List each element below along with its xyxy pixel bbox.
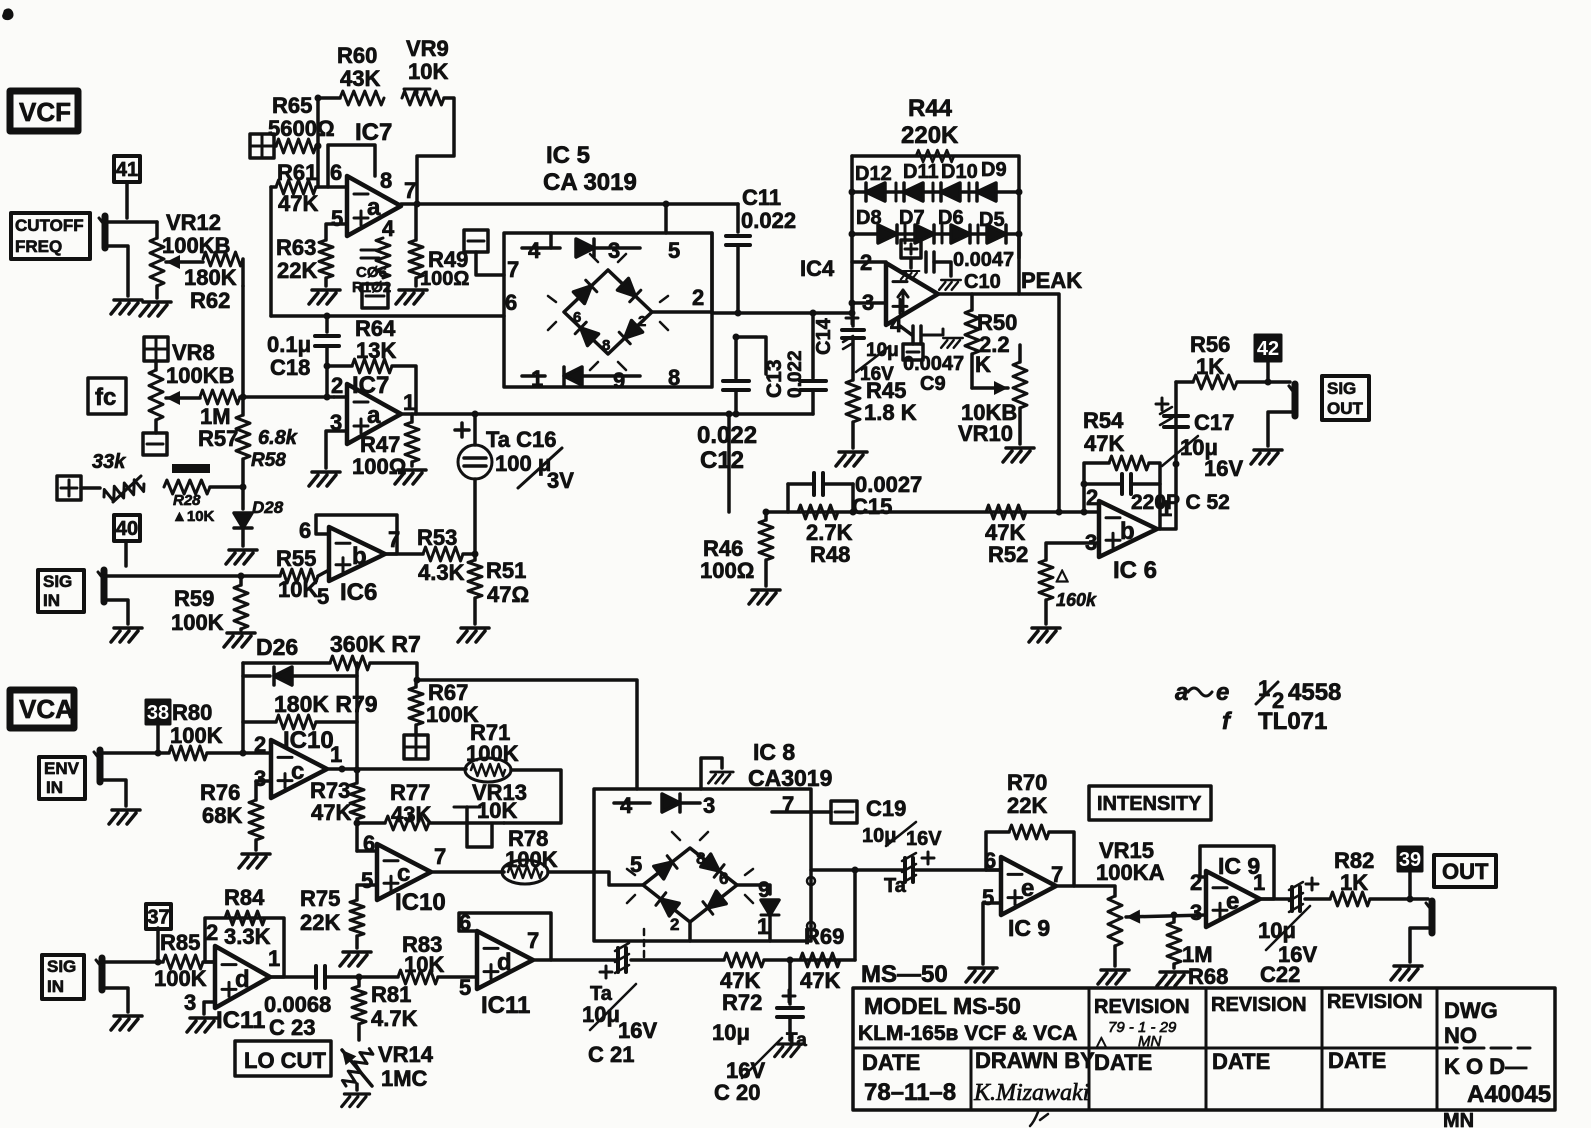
- label IC10 c2 pins: [361, 831, 446, 893]
- svg-text:R44: R44: [908, 95, 953, 122]
- resistor R7 360K: [243, 656, 417, 680]
- svg-text:VR14: VR14: [378, 1042, 434, 1067]
- label R82: [1334, 848, 1374, 895]
- potentiometer VR8: [149, 370, 163, 433]
- wire IC5 right edge: [710, 233, 714, 313]
- label IC5 pin2: [692, 285, 704, 310]
- label INTENSITY box: [1089, 786, 1211, 820]
- resistor R82 1K: [1305, 892, 1428, 906]
- op-amp IC6 b1: [299, 518, 400, 581]
- svg-text:3: 3: [703, 793, 715, 818]
- wire d1 output: [270, 975, 314, 979]
- ground under jack J41: [111, 300, 142, 314]
- resistor R69 47K: [800, 953, 840, 967]
- wire IC6b1 output: [385, 552, 423, 556]
- svg-text:C10: C10: [964, 271, 1001, 293]
- svg-text:6.8k: 6.8k: [258, 427, 298, 449]
- op-amp IC11 d2: [477, 931, 533, 989]
- IC8 outer box: [594, 789, 811, 941]
- IC5 diamond bridge: [548, 254, 668, 370]
- label SIG OUT box: [1322, 376, 1369, 420]
- title block frame: [853, 988, 1555, 1110]
- capacitor/resistor smudge under a1: [352, 238, 391, 296]
- svg-text:C11: C11: [742, 185, 781, 210]
- svg-text:D28: D28: [252, 498, 284, 517]
- capacitor C20 10u 16V: [742, 960, 803, 1078]
- svg-text:CA 3019: CA 3019: [543, 169, 637, 196]
- svg-text:2: 2: [254, 732, 266, 757]
- wire a2 pin3 to ground: [326, 431, 347, 468]
- svg-text:e: e: [1216, 679, 1229, 706]
- resistor R63 22K: [319, 224, 347, 286]
- svg-text:3: 3: [184, 990, 196, 1015]
- svg-text:A40045: A40045: [1467, 1081, 1551, 1108]
- label DATE1: [862, 1050, 920, 1075]
- label REVISION1: [1094, 996, 1190, 1018]
- svg-text:R28: R28: [173, 492, 201, 509]
- label LO CUT box: [235, 1041, 331, 1076]
- potentiometer VR10 10KB: [972, 345, 1027, 444]
- label R80: [170, 700, 223, 748]
- svg-text:VCF: VCF: [19, 97, 71, 127]
- svg-text:100K: 100K: [154, 966, 207, 991]
- svg-text:R59: R59: [174, 586, 214, 611]
- wire R61 left leg: [269, 187, 273, 316]
- ground under d1 pin3: [187, 1018, 218, 1032]
- svg-text:IC10: IC10: [283, 727, 334, 754]
- label R58: [251, 427, 298, 471]
- svg-text:16V: 16V: [618, 1018, 657, 1043]
- label MS-50 above table: [861, 961, 948, 988]
- capacitor C9 0.0047: [900, 326, 963, 360]
- capacitor C19 Ta 10u: [886, 822, 934, 883]
- label IC7 a1 pins: [330, 160, 416, 241]
- svg-text:FREQ: FREQ: [15, 237, 62, 256]
- svg-text:9: 9: [613, 368, 625, 393]
- IC5 pin1-9 diode: [522, 367, 640, 385]
- svg-text:13K: 13K: [356, 338, 396, 363]
- resistor R61 47K: [271, 180, 328, 194]
- svg-text:68K: 68K: [202, 803, 242, 828]
- svg-text:39: 39: [1399, 849, 1421, 871]
- label R53: [417, 525, 465, 585]
- label C10: [953, 249, 1014, 293]
- svg-text:R63: R63: [276, 235, 316, 260]
- svg-text:MN: MN: [1443, 1110, 1474, 1128]
- wire IC6b2 output to C17: [1157, 382, 1180, 529]
- label IC11 d2: [481, 992, 530, 1019]
- svg-text:0.022: 0.022: [697, 422, 757, 449]
- svg-text:C19: C19: [866, 796, 906, 821]
- svg-text:MN: MN: [1138, 1033, 1161, 1050]
- connector window under R67: [404, 735, 428, 759]
- ground under R75: [340, 952, 371, 966]
- label IC9 e1: [1008, 915, 1050, 941]
- label C9 pin4: [890, 312, 964, 395]
- svg-text:2: 2: [638, 313, 646, 330]
- svg-text:C17: C17: [1194, 410, 1234, 435]
- wire R7 to IC8: [414, 677, 638, 790]
- resistor R59 100K: [234, 573, 248, 631]
- svg-text:b: b: [1120, 518, 1135, 545]
- wire IC4 output PEAK: [938, 294, 1059, 512]
- potentiometer VR13 100K: [465, 758, 561, 823]
- svg-text:5600Ω: 5600Ω: [268, 116, 335, 141]
- IC8 bottom vertex stub: [688, 922, 692, 941]
- IC8 top ground stub: [701, 758, 733, 789]
- legend op-amp types: [1175, 676, 1341, 735]
- svg-text:R61: R61: [277, 160, 317, 185]
- resistor R58 6.8k: [236, 397, 250, 491]
- label IC8: [748, 739, 832, 791]
- svg-text:220P C 52: 220P C 52: [1131, 491, 1230, 514]
- wire bus y512: [726, 411, 1100, 516]
- svg-text:K: K: [975, 352, 991, 377]
- op-amp IC10 c2: [377, 844, 431, 900]
- wire d1 pin3: [204, 1002, 215, 1014]
- wire IC5 pin2 row: [652, 310, 712, 314]
- svg-text:IC7: IC7: [352, 372, 389, 399]
- op-amp IC9 e2: [1206, 871, 1260, 927]
- resistor R83 10K: [359, 970, 477, 984]
- svg-text:C 21: C 21: [588, 1042, 634, 1067]
- resistor R77 43K: [357, 816, 504, 830]
- svg-text:47Ω: 47Ω: [487, 582, 529, 607]
- capacitor C17 10u: [1156, 398, 1198, 466]
- label R81: [371, 982, 418, 1031]
- op-amp IC7 a2: [347, 384, 401, 444]
- svg-text:Ta: Ta: [884, 875, 907, 897]
- wire IC9e1 pin5: [983, 903, 1001, 964]
- svg-text:47K: 47K: [800, 968, 840, 993]
- svg-text:0.0068: 0.0068: [264, 992, 331, 1017]
- svg-text:10K: 10K: [404, 952, 444, 977]
- label R85: [154, 930, 207, 991]
- svg-text:fc: fc: [95, 384, 116, 411]
- wire bus y313: [712, 310, 856, 317]
- svg-text:100K: 100K: [505, 847, 558, 872]
- label R83: [402, 932, 444, 977]
- svg-text:100KB: 100KB: [162, 233, 230, 258]
- label C18: [267, 332, 311, 380]
- svg-text:IC6: IC6: [340, 579, 377, 606]
- label C15: [852, 472, 922, 519]
- label R68: [1182, 942, 1228, 989]
- wire C21 to R72: [631, 958, 724, 962]
- potentiometer VR9: [402, 89, 444, 105]
- resistor R68 1M: [1167, 915, 1181, 968]
- svg-text:INTENSITY: INTENSITY: [1097, 793, 1202, 815]
- svg-text:VR10: VR10: [958, 421, 1013, 446]
- svg-text:R75: R75: [300, 886, 340, 911]
- svg-text:R1Ø2: R1Ø2: [352, 279, 391, 296]
- svg-text:NO: NO: [1444, 1023, 1477, 1048]
- svg-text:42: 42: [1257, 338, 1279, 360]
- svg-text:10μ: 10μ: [582, 1002, 620, 1027]
- svg-text:100 μ: 100 μ: [495, 451, 551, 476]
- svg-text:CA3019: CA3019: [748, 765, 832, 791]
- wire CV rail: [241, 286, 245, 397]
- svg-text:2: 2: [206, 920, 218, 945]
- svg-text:2: 2: [670, 915, 679, 934]
- svg-text:a: a: [367, 194, 381, 221]
- label R56: [1190, 332, 1230, 379]
- wire R65 node: [315, 95, 322, 188]
- svg-text:IC11: IC11: [481, 992, 530, 1019]
- svg-text:IC 8: IC 8: [753, 739, 795, 765]
- diode row D8-D5: [849, 225, 1023, 243]
- ground under jack J40: [111, 628, 142, 642]
- svg-text:KLM-165ʙ VCF & VCA: KLM-165ʙ VCF & VCA: [858, 1022, 1077, 1045]
- svg-text:5: 5: [630, 852, 642, 877]
- ground under R63: [309, 290, 340, 304]
- label R51: [486, 558, 529, 607]
- wire R72 to R69: [790, 870, 855, 960]
- svg-text:VR9: VR9: [406, 36, 449, 61]
- resistor R76 68K: [249, 800, 263, 850]
- svg-text:D11: D11: [903, 161, 939, 183]
- svg-text:100Ω: 100Ω: [700, 558, 754, 583]
- svg-text:40: 40: [116, 518, 138, 540]
- label IC6 b2 pins: [1085, 485, 1172, 555]
- ground under VR10: [1003, 448, 1034, 462]
- resistor R57 1M: [166, 390, 334, 405]
- svg-text:D7: D7: [899, 207, 925, 229]
- svg-text:47K: 47K: [278, 191, 318, 216]
- svg-text:OUT: OUT: [1442, 859, 1489, 884]
- svg-text:33k: 33k: [92, 451, 126, 473]
- label OUT box: [1434, 855, 1496, 887]
- svg-text:IC11: IC11: [216, 1007, 265, 1034]
- label R76: [200, 780, 242, 828]
- label IC4: [800, 256, 835, 281]
- IC8 edge pin circles: [807, 877, 815, 930]
- svg-text:C13: C13: [763, 359, 786, 398]
- label R59: [171, 586, 224, 635]
- label DATE4: [1328, 1048, 1386, 1073]
- label IC10 c1 pins: [254, 732, 342, 791]
- connector 42: [1255, 335, 1281, 382]
- label R46: [700, 536, 754, 583]
- trimmer 33k: [92, 451, 146, 504]
- ground under VR12: [140, 302, 171, 316]
- wire IC9e2 output: [1260, 897, 1290, 901]
- svg-text:220K: 220K: [901, 122, 959, 149]
- svg-text:R65: R65: [272, 93, 312, 118]
- svg-text:D26: D26: [256, 634, 298, 660]
- label IC7 a2 pins: [330, 373, 415, 435]
- svg-text:K O D—: K O D—: [1444, 1054, 1527, 1079]
- svg-text:d: d: [235, 966, 250, 993]
- feedback R70 22K: [986, 832, 1074, 886]
- svg-text:0.022: 0.022: [741, 208, 796, 233]
- wire VR15 wiper: [1126, 910, 1206, 924]
- jack SIG IN VCA: [96, 958, 163, 1012]
- label R55: [276, 546, 329, 609]
- resistor R46 100: [759, 512, 773, 586]
- svg-text:41: 41: [116, 159, 138, 181]
- label IC7 a1: [355, 119, 392, 146]
- label DATE2: [1094, 1050, 1152, 1075]
- svg-text:1.8 K: 1.8 K: [864, 400, 917, 425]
- capacitor C11 0.022: [726, 204, 750, 313]
- capacitor C16 100u 3V: [455, 414, 562, 554]
- svg-text:100Ω: 100Ω: [420, 268, 469, 290]
- svg-text:REVISION: REVISION: [1094, 996, 1190, 1018]
- capacitor C10 0.0047: [926, 252, 961, 290]
- connector minus to IC5 pin7: [464, 230, 504, 275]
- label ENV IN box: [39, 757, 85, 799]
- svg-text:1K: 1K: [1196, 354, 1224, 379]
- svg-text:IC 6: IC 6: [1113, 557, 1157, 584]
- op-amp IC11 d1: [215, 946, 270, 1008]
- svg-text:LO CUT: LO CUT: [244, 1048, 326, 1073]
- resistor R70 22K: [1009, 825, 1049, 839]
- svg-text:IN: IN: [43, 591, 60, 610]
- title block verticals: [971, 988, 1437, 1110]
- label VR12: [162, 210, 230, 258]
- svg-text:REVISION: REVISION: [1327, 991, 1423, 1013]
- dashed wire bridge to output: [643, 929, 646, 958]
- trimmer VR14 1MC: [337, 1046, 375, 1107]
- ground under IC9e1 pin5: [966, 968, 997, 982]
- resistor R56 1K: [1176, 375, 1290, 389]
- label KOD: [1444, 1054, 1527, 1079]
- svg-text:TL071: TL071: [1258, 708, 1327, 735]
- svg-text:MS—50: MS—50: [861, 961, 948, 988]
- svg-text:R52: R52: [988, 542, 1028, 567]
- svg-text:100Ω: 100Ω: [352, 454, 406, 479]
- label C14 rotated: [813, 317, 899, 385]
- ground under J42: [1251, 450, 1282, 464]
- svg-text:1: 1: [403, 390, 415, 415]
- svg-text:100K: 100K: [170, 723, 223, 748]
- ground under R47: [395, 470, 426, 484]
- label C13 rotated: [763, 350, 806, 398]
- svg-text:IC10: IC10: [395, 889, 446, 916]
- label IC11 d1: [216, 1007, 265, 1034]
- svg-text:R62: R62: [190, 288, 230, 313]
- feedback wire IC6b1: [316, 515, 397, 554]
- label C19: [862, 796, 942, 897]
- label fc box: [88, 378, 126, 414]
- svg-text:IN: IN: [46, 778, 63, 797]
- label VR15: [1096, 838, 1165, 885]
- ground under R46: [749, 590, 780, 604]
- connector 40: [114, 515, 140, 566]
- connector 39: [1398, 847, 1422, 899]
- op-amp IC4 f: [886, 263, 938, 325]
- svg-text:10K: 10K: [477, 798, 517, 823]
- label R75: [300, 886, 340, 935]
- IC5 pin4-3 diode: [522, 233, 640, 257]
- ground under J39: [1391, 966, 1422, 980]
- label IC9 e2: [1218, 853, 1260, 879]
- svg-text:8: 8: [602, 337, 610, 354]
- svg-text:R54: R54: [1083, 408, 1124, 433]
- svg-text:R80: R80: [172, 700, 212, 725]
- svg-text:360K R7: 360K R7: [330, 631, 421, 657]
- wire VR13 wiper: [454, 807, 492, 847]
- svg-text:VR12: VR12: [166, 210, 221, 235]
- label R48: [806, 520, 853, 567]
- label C21: [582, 983, 657, 1067]
- svg-text:47K: 47K: [1084, 431, 1124, 456]
- label R47: [352, 432, 406, 479]
- svg-text:c: c: [397, 860, 410, 887]
- feedback wire IC11d2: [459, 913, 551, 960]
- svg-text:8: 8: [380, 168, 392, 193]
- label MN bottom: [1443, 1110, 1474, 1128]
- wire a2 pin2: [334, 395, 347, 399]
- label R54: [1083, 408, 1124, 456]
- connector window R65: [250, 134, 276, 158]
- svg-text:C9: C9: [920, 373, 946, 395]
- svg-text:D10: D10: [941, 161, 978, 183]
- svg-text:R84: R84: [224, 885, 265, 910]
- IC8 pin4-3 diode: [614, 794, 700, 812]
- svg-text:2: 2: [331, 373, 343, 398]
- label IC7 a2: [352, 372, 389, 399]
- wire c2 pin5: [357, 885, 377, 900]
- capacitor C15 0.0027: [788, 473, 853, 512]
- resistor R53 4.3K: [423, 547, 479, 561]
- svg-text:7: 7: [1051, 862, 1063, 887]
- label MODEL: [864, 993, 1021, 1019]
- svg-text:VCA: VCA: [19, 694, 74, 724]
- svg-text:R55: R55: [276, 546, 316, 571]
- wire feedback left leg: [240, 663, 247, 757]
- ground under R68: [1157, 972, 1188, 986]
- svg-text:R85: R85: [160, 930, 200, 955]
- label KLM-165B: [858, 1022, 1077, 1045]
- label C16: [486, 427, 574, 493]
- svg-text:IC4: IC4: [800, 256, 835, 281]
- label R64: [355, 316, 396, 363]
- svg-text:100KB: 100KB: [166, 363, 234, 388]
- svg-text:R60: R60: [337, 43, 377, 68]
- label VR10: [958, 400, 1017, 446]
- wire IC5 pin5 stub: [664, 204, 668, 233]
- resistor R72 47K: [724, 953, 794, 967]
- resistor R75 22K: [350, 900, 364, 948]
- label CUTOFF FREQ box: [11, 213, 90, 259]
- svg-text:0.1μ: 0.1μ: [267, 332, 311, 357]
- resistor R44 on box top: [916, 150, 954, 162]
- svg-text:4558: 4558: [1288, 679, 1341, 706]
- svg-text:0.0047: 0.0047: [953, 249, 1014, 271]
- svg-text:Ta: Ta: [786, 1030, 807, 1051]
- capacitor C23 0.0068: [316, 966, 363, 988]
- svg-text:VR8: VR8: [172, 340, 215, 365]
- resistor R81 4.7K: [352, 977, 366, 1040]
- label IC5 bottom pins: [531, 365, 680, 393]
- wire a2 output bus: [401, 411, 813, 418]
- label IC8 top pins: [620, 792, 794, 818]
- resistor R51 47ohm: [468, 554, 482, 624]
- svg-text:3.3K: 3.3K: [224, 924, 271, 949]
- label R79: [274, 691, 378, 717]
- diode row D12-D9: [849, 183, 1023, 201]
- section label VCA: [10, 690, 74, 728]
- capacitor C12 0.022: [723, 334, 766, 415]
- capacitor C21 Ta 10u: [590, 943, 636, 1030]
- resistor R64 13K: [327, 359, 416, 414]
- svg-text:DATE: DATE: [1212, 1049, 1270, 1074]
- diode D28: [234, 487, 284, 546]
- label R49: [420, 247, 469, 290]
- diode D26: [243, 667, 357, 685]
